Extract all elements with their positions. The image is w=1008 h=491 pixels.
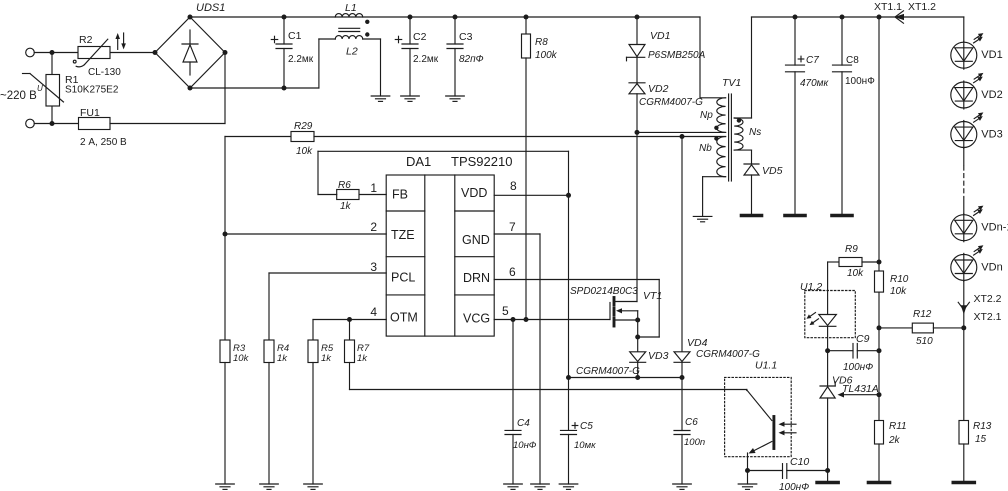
svg-text:VD5: VD5 <box>762 165 783 177</box>
svg-text:VD1: VD1 <box>981 49 1002 61</box>
svg-text:10нФ: 10нФ <box>513 440 537 451</box>
svg-text:10k: 10k <box>233 353 250 364</box>
svg-text:TZE: TZE <box>391 228 415 242</box>
svg-text:R10: R10 <box>890 274 909 285</box>
svg-text:VD4: VD4 <box>687 337 708 349</box>
svg-text:10k: 10k <box>847 268 864 279</box>
svg-text:VCG: VCG <box>463 312 490 326</box>
svg-text:C9: C9 <box>856 333 870 345</box>
svg-text:R12: R12 <box>913 309 932 320</box>
svg-text:8: 8 <box>510 179 517 193</box>
svg-text:1k: 1k <box>357 353 368 364</box>
svg-text:XT1.2: XT1.2 <box>908 1 936 13</box>
svg-text:UDS1: UDS1 <box>196 2 225 14</box>
svg-text:CGRM4007-G: CGRM4007-G <box>639 97 703 108</box>
svg-text:VDn: VDn <box>981 261 1002 273</box>
svg-text:C2: C2 <box>413 31 427 43</box>
svg-text:1k: 1k <box>277 353 288 364</box>
svg-text:2k: 2k <box>888 435 901 446</box>
svg-text:7: 7 <box>509 220 516 234</box>
svg-text:C6: C6 <box>685 417 698 428</box>
svg-text:U1.1: U1.1 <box>755 360 777 372</box>
svg-text:R11: R11 <box>889 421 907 432</box>
svg-text:~220 В: ~220 В <box>0 90 37 102</box>
svg-text:10мк: 10мк <box>574 440 596 451</box>
svg-text:C7: C7 <box>806 55 819 66</box>
svg-text:100n: 100n <box>684 437 705 448</box>
svg-text:FB: FB <box>392 188 408 202</box>
svg-text:2 А, 250 В: 2 А, 250 В <box>80 137 127 148</box>
svg-text:DA1: DA1 <box>406 154 431 169</box>
svg-text:CL-130: CL-130 <box>88 67 121 78</box>
svg-text:C1: C1 <box>288 30 302 42</box>
svg-text:VDn-1: VDn-1 <box>981 222 1008 234</box>
svg-text:100нФ: 100нФ <box>845 76 875 87</box>
svg-text:100нФ: 100нФ <box>779 482 809 491</box>
svg-text:U1.2: U1.2 <box>800 281 822 293</box>
svg-text:L1: L1 <box>345 2 357 14</box>
svg-text:VD3: VD3 <box>981 129 1002 141</box>
svg-text:5: 5 <box>502 304 509 318</box>
svg-text:L2: L2 <box>346 46 358 58</box>
svg-text:2.2мк: 2.2мк <box>413 54 439 65</box>
svg-text:P6SMB250A: P6SMB250A <box>648 50 706 61</box>
svg-text:VD3: VD3 <box>648 350 669 362</box>
svg-text:6: 6 <box>509 265 516 279</box>
svg-text:DRN: DRN <box>463 271 490 285</box>
svg-text:R2: R2 <box>79 34 93 46</box>
svg-text:1: 1 <box>370 181 377 195</box>
svg-text:1k: 1k <box>340 201 352 212</box>
svg-text:S10K275E2: S10K275E2 <box>65 85 119 96</box>
svg-text:15: 15 <box>975 434 987 445</box>
svg-text:R6: R6 <box>338 180 351 191</box>
svg-text:470мк: 470мк <box>800 78 830 89</box>
svg-text:TV1: TV1 <box>722 77 741 89</box>
svg-text:TPS92210: TPS92210 <box>451 154 512 169</box>
svg-text:C4: C4 <box>517 418 530 429</box>
svg-text:CGRM4007-G: CGRM4007-G <box>576 366 640 377</box>
svg-text:XT2.2: XT2.2 <box>974 293 1002 305</box>
svg-text:10k: 10k <box>890 286 907 297</box>
svg-text:CGRM4007-G: CGRM4007-G <box>696 349 760 360</box>
svg-text:VT1: VT1 <box>643 290 662 302</box>
svg-text:100нФ: 100нФ <box>843 362 873 373</box>
svg-text:TL431A: TL431A <box>842 383 879 395</box>
svg-text:R29: R29 <box>294 121 313 132</box>
svg-text:VD2: VD2 <box>648 83 669 95</box>
svg-text:510: 510 <box>916 336 933 347</box>
svg-text:3: 3 <box>370 260 377 274</box>
svg-text:Nb: Nb <box>699 143 712 154</box>
svg-text:4: 4 <box>370 305 377 319</box>
svg-text:GND: GND <box>462 233 490 247</box>
svg-text:2.2мк: 2.2мк <box>288 54 314 65</box>
svg-text:R13: R13 <box>973 421 992 432</box>
svg-text:1k: 1k <box>321 353 332 364</box>
svg-text:C8: C8 <box>846 55 859 66</box>
svg-text:OTM: OTM <box>390 311 418 325</box>
svg-text:R9: R9 <box>845 244 858 255</box>
svg-text:C3: C3 <box>459 31 473 43</box>
svg-text:VD2: VD2 <box>981 89 1002 101</box>
svg-text:C5: C5 <box>580 421 593 432</box>
svg-text:C10: C10 <box>790 456 809 468</box>
svg-text:100k: 100k <box>535 50 558 61</box>
svg-text:82пФ: 82пФ <box>459 54 484 65</box>
svg-text:U: U <box>37 84 43 93</box>
svg-text:10k: 10k <box>296 146 313 157</box>
svg-text:FU1: FU1 <box>80 107 100 119</box>
svg-text:XT2.1: XT2.1 <box>974 311 1002 323</box>
svg-text:Ns: Ns <box>749 127 761 138</box>
svg-text:XT1.1: XT1.1 <box>874 1 902 13</box>
svg-text:PCL: PCL <box>391 271 415 285</box>
svg-text:2: 2 <box>370 220 377 234</box>
svg-text:VDD: VDD <box>461 186 487 200</box>
svg-text:Np: Np <box>700 110 713 121</box>
svg-text:VD1: VD1 <box>650 30 670 42</box>
svg-text:SPD0214B0C3: SPD0214B0C3 <box>570 286 638 297</box>
svg-text:R8: R8 <box>535 37 548 48</box>
